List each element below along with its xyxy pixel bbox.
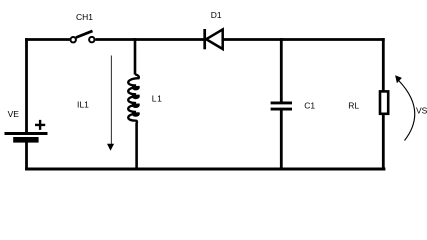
current arrow IL1 head — [107, 144, 114, 151]
battery plus sign — [35, 120, 45, 130]
capacitor C1 bottom plate — [271, 108, 292, 111]
node A vertical lead (top wire to inductor) — [134, 38, 137, 74]
resistor RL box — [380, 91, 388, 113]
switch CH1 right contact — [89, 37, 94, 42]
battery VE top plate — [5, 132, 48, 135]
switch CH1 lever — [76, 31, 93, 38]
wire top left segment — [25, 38, 70, 41]
svg-text:D1: D1 — [211, 10, 222, 20]
wire left vertical upper (battery to top wire) — [25, 38, 28, 133]
current arrow IL1 line — [110, 56, 112, 145]
svg-text:IL1: IL1 — [77, 99, 89, 109]
wire right vertical upper — [382, 38, 385, 91]
capacitor C1 top plate — [271, 101, 292, 104]
wire left vertical lower (battery to bottom wire) — [25, 142, 28, 171]
inductor L1 bottom lead — [135, 123, 138, 171]
wire right vertical lower — [382, 115, 385, 171]
wire top right segment (diode to right corner) — [223, 38, 385, 41]
output voltage arrow VS arc — [399, 81, 415, 141]
svg-text:L1: L1 — [152, 93, 163, 103]
wire bottom — [25, 168, 385, 171]
svg-text:VE: VE — [8, 109, 20, 119]
capacitor C1 top lead — [280, 38, 283, 102]
svg-text:C1: C1 — [304, 100, 315, 110]
wire top middle segment (switch to diode) — [95, 38, 204, 41]
inductor L1 coil — [128, 74, 139, 122]
svg-text:RL: RL — [348, 101, 359, 111]
diode D1 cathode bar — [203, 29, 206, 49]
diode D1 triangle — [206, 29, 223, 49]
svg-text:CH1: CH1 — [76, 12, 93, 22]
svg-text:VS: VS — [416, 106, 427, 116]
output voltage arrow VS head — [395, 75, 402, 83]
switch CH1 left contact — [71, 37, 76, 42]
capacitor C1 bottom lead — [280, 111, 283, 170]
battery VE bottom plate — [13, 137, 38, 143]
